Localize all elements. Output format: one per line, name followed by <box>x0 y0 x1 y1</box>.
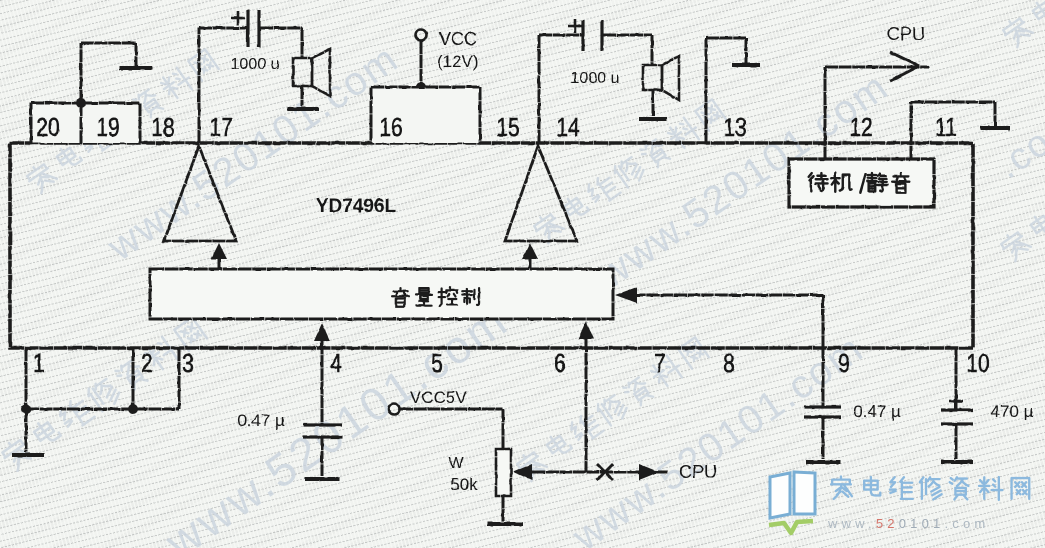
arrow to CPU (open chevron) <box>890 52 919 66</box>
wire SP1 to ground <box>301 86 304 106</box>
capacitor C1 1000u <box>246 10 249 47</box>
wire SP2 to ground <box>652 90 655 116</box>
ground G3 <box>639 117 667 121</box>
arrow into volume box <box>615 287 637 303</box>
capacitor C2 1000u plus <box>568 25 582 28</box>
svg-text:(12V): (12V) <box>437 52 479 71</box>
pin 8 <box>723 349 735 377</box>
node VCC junction <box>416 82 426 92</box>
wire pin10 down <box>955 348 958 410</box>
svg-text:7: 7 <box>654 349 666 377</box>
node pin2 <box>128 404 138 414</box>
svg-text:13: 13 <box>723 113 746 141</box>
wire pin14 riser <box>538 35 541 143</box>
ground G6 <box>12 453 44 457</box>
wire bus pins1-3 <box>26 408 179 411</box>
svg-text:18: 18 <box>151 113 174 141</box>
wire VCC down <box>420 41 423 88</box>
IC body YD7496L <box>10 143 973 348</box>
svg-text:www.520101.com: www.520101.com <box>827 516 989 531</box>
capacitor C2 1000u <box>581 20 584 51</box>
capacitor C10 470u <box>941 408 973 411</box>
wire pin20-pin19 loop <box>31 103 140 143</box>
pin 16 <box>379 113 402 141</box>
terminal VCC5V <box>389 404 400 415</box>
pin 4 <box>330 349 342 377</box>
svg-text:3: 3 <box>182 349 194 377</box>
watermark layer <box>24 48 219 196</box>
svg-text:YD7496L: YD7496L <box>316 196 397 217</box>
svg-text:17: 17 <box>209 113 232 141</box>
svg-text:VCC5V: VCC5V <box>410 388 467 407</box>
pin 3 <box>182 349 194 377</box>
label standby/mute (待机/静音) <box>809 173 828 191</box>
wire pin1 down <box>25 348 28 409</box>
wire pin2 down <box>132 348 135 409</box>
logo text 家电维修资料网 <box>831 477 852 499</box>
wire pin13 to ground <box>705 38 708 143</box>
ground G1 <box>120 66 153 70</box>
pin 19 <box>96 113 119 141</box>
pin 14 <box>556 113 579 141</box>
wire VCC5V to pot <box>400 408 503 411</box>
pin 13 <box>723 113 746 141</box>
speaker SP1 <box>293 58 312 86</box>
label volume control (音量控制) <box>392 288 409 307</box>
arrow to CPU bottom <box>639 464 659 480</box>
potentiometer W 50k <box>496 449 511 496</box>
wire pin16-pin15 loop <box>371 87 480 143</box>
wire to ground G1 <box>80 43 83 103</box>
op-amp A1 <box>164 146 236 241</box>
svg-text:W: W <box>448 455 464 472</box>
ground G4 <box>732 63 760 67</box>
wire arrow into A2 <box>529 257 532 269</box>
ground G10 <box>941 460 973 464</box>
ground G5 <box>980 126 1010 130</box>
wire C4 to ground <box>321 437 324 476</box>
op-amp A2 <box>505 146 577 241</box>
pin 9 <box>838 349 850 377</box>
logo book icon <box>770 472 815 518</box>
ground G8 <box>487 522 523 526</box>
wire pin4 with arrow into volume box <box>321 341 324 425</box>
svg-text:8: 8 <box>723 349 735 377</box>
wiper arrow <box>513 464 532 480</box>
svg-text:CPU: CPU <box>887 24 925 44</box>
pin 7 <box>654 349 666 377</box>
pin 1 <box>33 349 45 377</box>
wire pin9 down <box>822 348 825 407</box>
node junction pins 20/19 <box>76 98 86 108</box>
svg-text:1: 1 <box>33 349 45 377</box>
svg-text:2: 2 <box>141 349 153 377</box>
pin 20 <box>36 113 59 141</box>
svg-text:CPU: CPU <box>679 462 717 482</box>
wire pin11 to ground <box>910 102 913 159</box>
pin 10 <box>966 349 989 377</box>
svg-text:5: 5 <box>431 349 443 377</box>
capacitor C4 0.47u <box>303 423 342 426</box>
X mark <box>597 464 613 480</box>
speaker SP2 <box>643 65 662 90</box>
block standby/mute <box>789 159 934 207</box>
capacitor C9 0.47u <box>804 405 841 408</box>
pin 2 <box>141 349 153 377</box>
svg-text:11: 11 <box>935 113 957 141</box>
svg-text:0.47 µ: 0.47 µ <box>237 411 285 430</box>
node pin1 <box>21 404 31 414</box>
svg-text:20: 20 <box>36 113 59 141</box>
wire C10 to ground <box>955 424 958 459</box>
terminal VCC <box>416 30 427 41</box>
svg-text:1000 u: 1000 u <box>231 56 280 73</box>
wire pin19 lead <box>80 103 83 143</box>
svg-text:1000 u: 1000 u <box>571 70 620 87</box>
wire C2 to speaker SP2 <box>603 34 652 37</box>
ground G2 <box>287 107 319 111</box>
wire arrow into A1 <box>218 257 221 269</box>
wire pin3 down <box>178 348 181 409</box>
pin 18 <box>151 113 174 141</box>
pin 17 <box>209 113 232 141</box>
pin 11 <box>935 113 957 141</box>
wire feedback from pin9 <box>636 294 823 297</box>
svg-text:50k: 50k <box>450 475 478 494</box>
svg-text:9: 9 <box>838 349 850 377</box>
svg-text:VCC: VCC <box>439 29 477 49</box>
ground G7 <box>305 477 340 481</box>
svg-text:16: 16 <box>379 113 402 141</box>
svg-text:6: 6 <box>554 349 566 377</box>
wire pin6 with arrow into volume box <box>585 339 588 472</box>
svg-text:10: 10 <box>966 349 989 377</box>
svg-text:4: 4 <box>330 349 342 377</box>
svg-text:www.520101.com: www.520101.com <box>155 293 517 548</box>
svg-text:0.47 µ: 0.47 µ <box>853 402 901 421</box>
wire wiper to CPU <box>532 471 668 474</box>
wire C9 to ground <box>822 417 825 459</box>
pin 12 <box>849 113 872 141</box>
capacitor C1 1000u plus <box>231 17 245 20</box>
wire pot to ground <box>502 496 505 521</box>
pin 6 <box>554 349 566 377</box>
svg-text:15: 15 <box>496 113 519 141</box>
capacitor C10 470u plus <box>949 400 963 403</box>
svg-text:www.520101.com: www.520101.com <box>564 326 872 548</box>
wire to ground G6 <box>25 409 28 452</box>
svg-text:19: 19 <box>96 113 119 141</box>
svg-text:.com: .com <box>989 101 1045 187</box>
pin 5 <box>431 349 443 377</box>
wire pin12 to CPU <box>824 67 827 159</box>
ground G9 <box>806 460 841 464</box>
svg-text:14: 14 <box>556 113 579 141</box>
svg-text:12: 12 <box>849 113 872 141</box>
wire pin17 riser <box>198 28 201 143</box>
wire C1 to speaker SP1 <box>260 27 302 30</box>
block volume control <box>150 269 613 319</box>
pin 15 <box>496 113 519 141</box>
svg-text:470 µ: 470 µ <box>991 402 1034 421</box>
